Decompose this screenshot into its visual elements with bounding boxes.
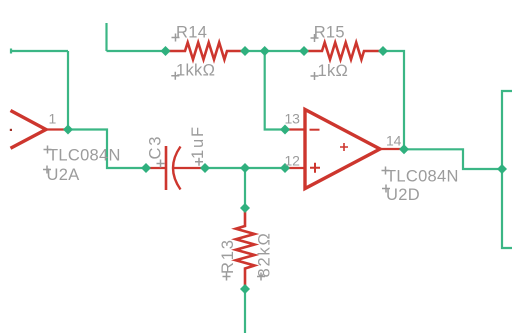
svg-text:12: 12	[285, 153, 301, 169]
op-amp U2D	[305, 110, 380, 189]
resistor R13 (vertical)	[236, 208, 255, 289]
U2D output pin 14 stub	[380, 148, 404, 150]
node R15 left	[299, 46, 309, 56]
svg-text:1kkΩ: 1kkΩ	[176, 62, 215, 80]
wire vertical from top-left down to U2A output	[67, 51, 69, 130]
node bracket tap	[497, 164, 507, 174]
node R14 right	[240, 46, 250, 56]
node bus drop	[260, 46, 270, 56]
node output pin14	[399, 144, 409, 154]
node C3 left	[141, 163, 151, 173]
wire output to right bracket	[404, 149, 502, 169]
cross C3	[157, 160, 165, 168]
wire C3 to pin12	[205, 167, 285, 169]
resistor R15	[304, 43, 383, 60]
cross U2D	[382, 185, 390, 193]
U2A output pin	[46, 128, 68, 130]
wire down to R13	[244, 168, 246, 208]
wire right bracket	[502, 91, 512, 248]
svg-text:R15: R15	[314, 24, 345, 42]
svg-text:R14: R14	[176, 24, 207, 42]
node pin12	[280, 163, 290, 173]
U2D minus mark	[310, 129, 320, 131]
U2D plus mark	[310, 163, 320, 173]
wire R15 right to output column	[383, 51, 404, 149]
svg-text:1kΩ: 1kΩ	[318, 62, 349, 80]
svg-text:U2A: U2A	[47, 166, 80, 184]
cross R15 value	[311, 72, 319, 80]
node R14 left	[161, 46, 171, 56]
wire drop to pin13	[265, 51, 285, 130]
cross R15	[311, 34, 319, 42]
cross U2A	[43, 166, 51, 174]
wire top bus left	[107, 50, 166, 52]
wire top-left horizontal	[11, 50, 68, 52]
U2D origin cross	[340, 143, 348, 151]
cross C3 value	[195, 158, 203, 166]
svg-text:C3: C3	[147, 135, 165, 160]
capacitor C3	[146, 167, 166, 169]
node R13 lower	[240, 284, 250, 294]
svg-text:14: 14	[386, 133, 402, 149]
svg-text:TLC084N: TLC084N	[386, 168, 459, 186]
wire stub vertical at x=106.5	[105, 23, 107, 51]
wire below R13	[244, 289, 246, 333]
svg-text:1uF: 1uF	[189, 125, 207, 159]
resistor R14	[166, 43, 246, 60]
U2D pin 13 stub	[285, 128, 305, 130]
wire between R14 and R15	[245, 50, 304, 52]
wire end tick	[10, 49, 12, 54]
svg-text:TLC084N: TLC084N	[48, 147, 121, 165]
cross U2A part	[44, 146, 52, 154]
wire U2A out to C3	[68, 130, 146, 169]
cross R14 value	[171, 72, 179, 80]
node R13 upper	[240, 203, 250, 213]
U2A origin dot	[10, 129, 12, 131]
svg-text:1: 1	[49, 111, 57, 127]
svg-text:13: 13	[285, 111, 301, 127]
cross R14	[172, 34, 180, 42]
node C3 right	[200, 163, 210, 173]
cross U2D part	[382, 167, 390, 175]
svg-text:82kΩ: 82kΩ	[256, 231, 274, 277]
cross R13	[223, 273, 231, 281]
node R13 top tap	[240, 163, 250, 173]
op-amp U2A (partial)	[11, 111, 47, 149]
svg-text:U2D: U2D	[386, 186, 420, 204]
node R15 right	[378, 46, 388, 56]
svg-text:R13: R13	[219, 238, 237, 274]
node pin13	[280, 125, 290, 135]
U2D pin 12 stub	[285, 167, 305, 169]
cross R13 value	[257, 273, 265, 281]
node U2A output	[63, 125, 73, 135]
